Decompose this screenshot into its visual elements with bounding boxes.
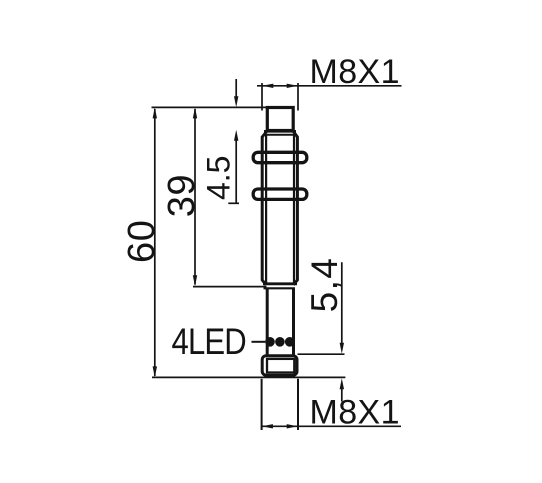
arrow 39 bottom [193, 275, 197, 286]
dimension 39 line [194, 109, 196, 285]
svg-text:M8X1: M8X1 [310, 53, 400, 91]
extension line M8X1 bottom left [261, 379, 263, 430]
thread inner right wire [293, 136, 295, 284]
thread bottom edge [263, 282, 297, 285]
arrow M8X1 top left [262, 84, 273, 88]
dimension 5,4 upper stem [341, 262, 343, 344]
dimension M8X1 top line [257, 85, 402, 87]
svg-text:4.5: 4.5 [200, 156, 236, 200]
barrel right wire [292, 288, 295, 355]
sensor tip (sensing face) [267, 108, 293, 131]
arrow 4.5 down [234, 96, 238, 107]
thread body outer right wire [293, 131, 297, 285]
svg-text:4LED: 4LED [172, 322, 247, 363]
thread body top edge [264, 130, 296, 133]
extension line M8X1 top right [297, 83, 299, 111]
arrow 60 top [153, 107, 157, 118]
tick under 4.5 [228, 202, 239, 204]
LED dot 1 [265, 337, 275, 347]
arrow M8X1 top right [287, 84, 298, 88]
thread body outer left wire [262, 131, 267, 285]
dimension 4.5 upper stem [235, 79, 237, 98]
extension line 5,4 bottom [298, 376, 346, 378]
thread inner left wire [265, 136, 267, 284]
arrow 60 bottom [153, 366, 157, 377]
dimension M8X1 bottom line [262, 425, 401, 427]
extension line top (at tip face) [152, 106, 267, 108]
nut ring 2 [253, 189, 307, 199]
extension line M8X1 bottom right [297, 379, 299, 430]
LED dot 3 [285, 337, 295, 347]
extension line M8X1 top left [261, 83, 263, 111]
svg-text:39: 39 [161, 174, 203, 217]
barrel top edge [264, 287, 296, 289]
extension line 5,4 top [298, 353, 345, 355]
LED dot 2 [275, 337, 285, 347]
extension line bottom (sensor end) [152, 376, 299, 378]
arrow M8X1 bottom right [287, 424, 298, 428]
dimension 5,4 lower stem [341, 387, 343, 402]
connector nut inner [267, 359, 294, 373]
svg-text:M8X1: M8X1 [310, 393, 400, 431]
connector nut outer [262, 356, 297, 376]
thread body second top edge [263, 134, 297, 136]
arrow 5,4 down [340, 343, 344, 354]
nut ring 1 [253, 152, 307, 162]
svg-text:60: 60 [121, 220, 163, 263]
dimension 4.5 lower stem [235, 139, 237, 203]
arrow 5,4 up [340, 378, 344, 389]
arrow M8X1 bottom left [262, 424, 273, 428]
svg-text:5,4: 5,4 [304, 257, 345, 313]
dimension 60 line [154, 109, 156, 376]
extension line 39 bottom [193, 286, 267, 288]
arrow 39 top [193, 107, 197, 118]
barrel left wire [266, 288, 269, 355]
arrow 4.5 up [234, 130, 238, 141]
leader 4LED [252, 341, 266, 343]
